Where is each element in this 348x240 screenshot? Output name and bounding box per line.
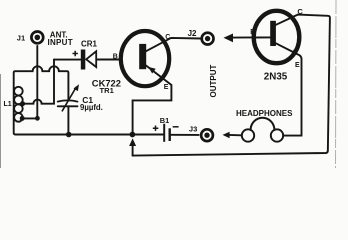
svg-text:J2: J2	[188, 29, 197, 38]
svg-text:J1: J1	[17, 33, 25, 42]
svg-text:E: E	[295, 62, 300, 69]
svg-text:B: B	[250, 29, 255, 36]
svg-text:OUTPUT: OUTPUT	[209, 65, 218, 98]
svg-text:HEADPHONES: HEADPHONES	[236, 109, 293, 118]
svg-text:B: B	[113, 53, 118, 60]
svg-text:CR1: CR1	[81, 40, 98, 49]
svg-text:INPUT: INPUT	[47, 38, 73, 47]
svg-text:9µµfd.: 9µµfd.	[80, 103, 103, 112]
svg-text:2N35: 2N35	[264, 72, 288, 83]
svg-text:TR1: TR1	[100, 86, 115, 95]
svg-text:J3: J3	[189, 124, 197, 133]
svg-text:L1: L1	[4, 101, 12, 108]
svg-text:E: E	[164, 84, 169, 91]
svg-text:C: C	[297, 7, 303, 16]
svg-text:C: C	[165, 34, 170, 41]
svg-text:B1: B1	[160, 116, 169, 125]
